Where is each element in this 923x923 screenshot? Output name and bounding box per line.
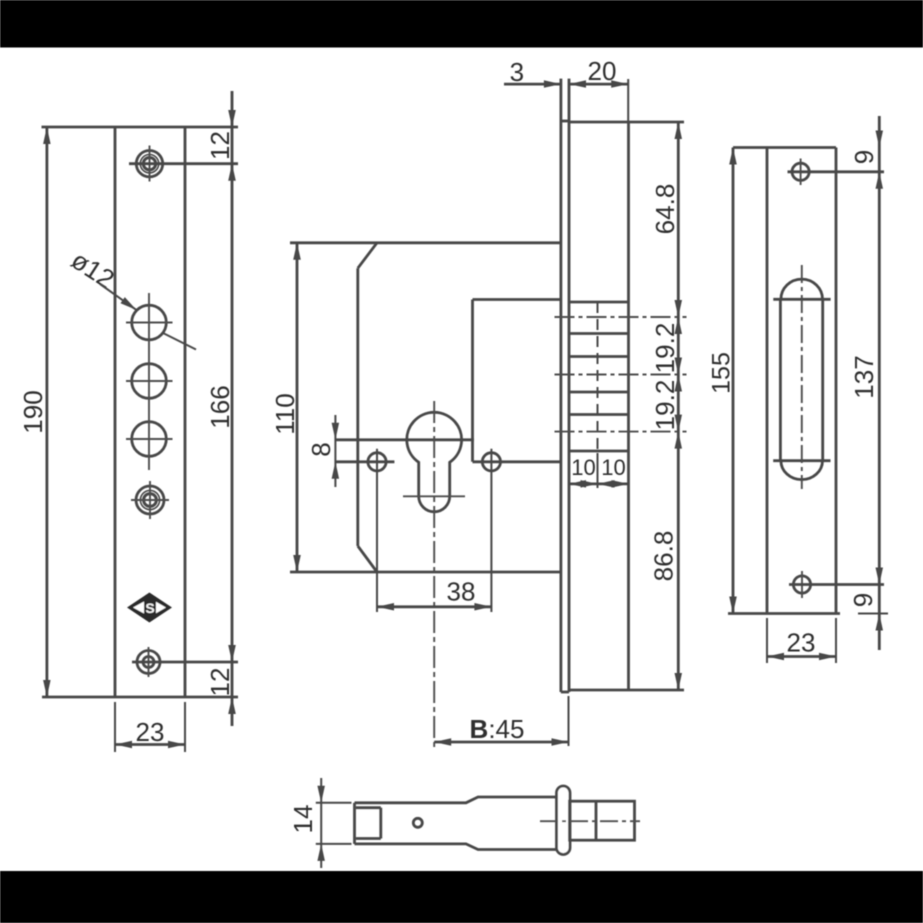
svg-text:20: 20 [588,56,617,86]
svg-text:12: 12 [205,668,235,697]
svg-text:86.8: 86.8 [649,531,679,582]
svg-text:110: 110 [270,393,300,434]
svg-text:23: 23 [787,628,816,658]
svg-text:14: 14 [288,805,318,834]
svg-text:9: 9 [849,150,879,164]
svg-text:3: 3 [510,57,524,87]
svg-text:64.8: 64.8 [650,184,680,235]
svg-text:B:45: B:45 [470,714,525,744]
svg-text:166: 166 [205,385,235,428]
svg-text:190: 190 [18,390,48,433]
svg-text:12: 12 [205,131,235,160]
svg-text:23: 23 [136,717,165,747]
svg-text:38: 38 [447,577,476,607]
svg-text:9: 9 [848,593,878,607]
svg-text:137: 137 [849,355,879,398]
svg-text:10: 10 [601,455,625,480]
svg-text:8: 8 [306,442,336,456]
svg-text:155: 155 [708,352,736,394]
svg-text:S: S [145,600,154,616]
svg-text:10: 10 [571,455,595,480]
svg-text:ø12: ø12 [66,245,120,295]
svg-text:19.2: 19.2 [650,380,680,431]
svg-text:19.2: 19.2 [650,323,680,374]
